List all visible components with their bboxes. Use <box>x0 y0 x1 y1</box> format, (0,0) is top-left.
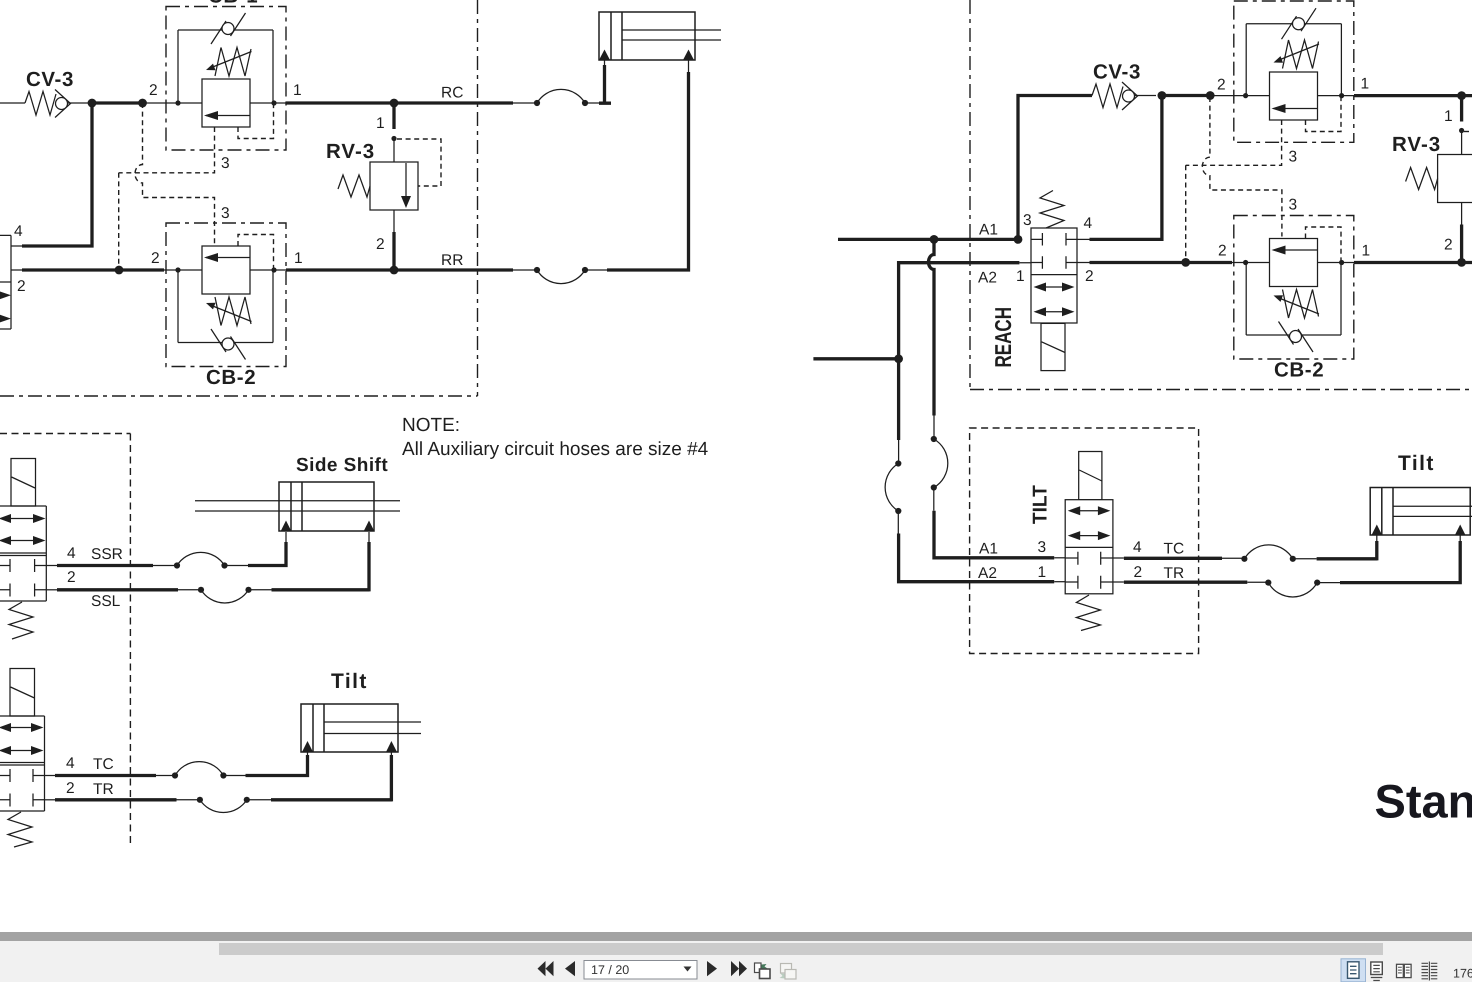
toolbar: previous view icon <box>755 963 771 979</box>
svg-text:REACH: REACH <box>990 307 1016 368</box>
svg-text:1: 1 <box>1016 268 1025 285</box>
svg-text:Tilt: Tilt <box>331 670 368 693</box>
node: top line at RV right <box>1457 91 1466 100</box>
node: RR at RV-3 <box>390 266 399 275</box>
svg-text:SSR: SSR <box>91 546 123 563</box>
svg-text:2: 2 <box>1218 243 1227 260</box>
dashed enclosure for aux valves (left) <box>0 434 130 846</box>
view mode: two page scrolling <box>1422 962 1438 981</box>
side shift valve body <box>0 506 46 639</box>
view mode: two pages <box>1397 964 1412 977</box>
node: CV-3 / port-4 riser junction <box>1158 91 1167 100</box>
tilt valve body (left) <box>0 716 45 847</box>
svg-text:TC: TC <box>1164 541 1185 558</box>
svg-text:2: 2 <box>151 250 160 267</box>
node: RC / pilot A junction <box>138 99 147 108</box>
hose break RR <box>513 267 607 284</box>
svg-text:3: 3 <box>1038 539 1047 556</box>
bottom divider bar <box>0 932 1472 941</box>
tilt valve body (right) <box>978 485 1142 630</box>
wire TR (left) <box>45 741 398 812</box>
svg-text:3: 3 <box>1289 197 1298 214</box>
node: A1 to CV-3 riser junction <box>1014 235 1023 244</box>
wire riser to CV-3 <box>1018 96 1092 242</box>
left control valve (cut off at edge) <box>0 223 26 329</box>
svg-text:2: 2 <box>1134 564 1143 581</box>
svg-text:All Auxiliary circuit hoses ar: All Auxiliary circuit hoses are size #4 <box>402 439 709 460</box>
svg-text:A2: A2 <box>978 565 997 582</box>
wire A2 through REACH <box>1019 262 1089 264</box>
counterbalance valve CB-1 (right) <box>1217 1 1369 142</box>
reach cylinder (top, left half) <box>599 12 721 60</box>
toolbar: last page button <box>731 961 747 976</box>
wire A2 into tilt valve <box>1054 581 1065 583</box>
pilot line B right (CB-1 port 3 to RR) <box>1186 120 1297 258</box>
wire RR to edge (right) <box>1354 261 1472 264</box>
node: pilot B junction (right RR) <box>1181 258 1190 267</box>
svg-text:CB-1: CB-1 <box>208 0 258 8</box>
svg-text:3: 3 <box>1023 212 1032 229</box>
svg-text:1: 1 <box>1362 243 1371 260</box>
svg-text:RV-3: RV-3 <box>326 140 375 163</box>
wire A1 feed (right half) <box>838 238 1019 241</box>
svg-text:Side Shift: Side Shift <box>296 455 388 476</box>
svg-text:2: 2 <box>149 82 158 99</box>
enclosure box left (dash-dot) <box>0 0 478 396</box>
side shift cylinder (double rod) <box>195 482 400 531</box>
scrollbar thumb <box>219 943 1383 955</box>
svg-text:2: 2 <box>1085 268 1094 285</box>
relief valve RV-3 (right, cut at edge) <box>1392 96 1472 263</box>
wire A1 into tilt valve <box>1054 557 1065 559</box>
node: RR at RV right <box>1457 258 1466 267</box>
svg-text:4: 4 <box>14 223 23 240</box>
svg-text:RR: RR <box>441 252 463 269</box>
svg-text:1: 1 <box>1444 108 1453 125</box>
svg-text:2: 2 <box>17 278 26 295</box>
wire RR to cylinder right port <box>607 50 694 272</box>
wire port 4 of REACH to riser <box>1077 96 1162 242</box>
wire A1 riser to tilt A1 (with hop over A2) <box>929 241 1055 558</box>
wire into CB-1 right <box>1210 95 1354 97</box>
svg-text:TR: TR <box>1164 565 1185 582</box>
wire TC (left) <box>45 741 314 779</box>
counterbalance valve CB-1 <box>149 0 302 150</box>
svg-text:TILT: TILT <box>1030 485 1052 524</box>
svg-text:1: 1 <box>1361 76 1370 93</box>
svg-text:1: 1 <box>294 250 303 267</box>
svg-text:3: 3 <box>221 155 230 172</box>
view mode: single page (active) <box>1341 959 1366 982</box>
pilot line A right (top line to CB-2 port 3) <box>1202 97 1297 237</box>
wire SSR <box>46 521 291 569</box>
svg-text:2: 2 <box>376 236 385 253</box>
svg-text:2: 2 <box>66 780 75 797</box>
tilt cylinder (left) <box>301 704 421 752</box>
wire port 4 (left valve to vertical riser) <box>11 245 22 247</box>
wire into CB-2 right <box>1232 262 1354 264</box>
wire RC riser to cylinder <box>599 50 611 105</box>
wire A2 to CB-2 right <box>1090 261 1233 264</box>
svg-text:4: 4 <box>66 755 75 772</box>
NOTE text <box>402 415 709 460</box>
wire TR (right) <box>1113 525 1466 597</box>
svg-text:CB-2: CB-2 <box>1274 359 1324 382</box>
wire RC thick segment to pilot node <box>92 101 143 104</box>
svg-text:TR: TR <box>93 781 114 798</box>
wire main top to edge (right) <box>1354 94 1472 97</box>
node: RC at RV-3 <box>390 99 399 108</box>
wire CB-2 port1 to RV node (RR) <box>286 268 513 271</box>
wire RC feed from left edge <box>0 102 25 104</box>
node: RR / pilot B junction <box>115 266 124 275</box>
toolbar: next view icon (disabled) <box>780 964 797 980</box>
solenoid (side shift valve) <box>11 459 36 507</box>
wire A2 feed corner and riser to tilt A2 <box>885 263 1054 582</box>
svg-text:A1: A1 <box>979 541 998 558</box>
svg-text:SSL: SSL <box>91 593 121 610</box>
reach valve <box>978 191 1094 371</box>
svg-text:CV-3: CV-3 <box>1093 61 1141 84</box>
svg-text:Tilt: Tilt <box>1398 452 1435 475</box>
svg-text:4: 4 <box>67 545 76 562</box>
enclosure box right (dash-dot) <box>970 0 1472 390</box>
wire lower feed (right half) <box>813 357 898 360</box>
svg-text:Stan: Stan <box>1375 775 1472 828</box>
svg-text:4: 4 <box>1084 215 1093 232</box>
pilot line A (RC to CB-2 port 3) <box>135 103 230 244</box>
svg-text:17 / 20: 17 / 20 <box>591 963 629 977</box>
tilt cylinder (right) <box>1370 488 1472 536</box>
check valve CV-3 (right) <box>1092 61 1156 111</box>
svg-text:NOTE:: NOTE: <box>402 415 460 436</box>
svg-text:4: 4 <box>1133 539 1142 556</box>
svg-text:CV-3: CV-3 <box>26 68 74 91</box>
svg-text:2: 2 <box>1444 237 1453 254</box>
node: pilot A junction (right) <box>1206 91 1215 100</box>
svg-text:A1: A1 <box>979 222 998 239</box>
svg-text:1: 1 <box>293 82 302 99</box>
svg-text:A2: A2 <box>978 270 997 287</box>
solenoid (tilt valve right) <box>1079 452 1102 500</box>
svg-text:176: 176 <box>1453 967 1472 981</box>
wire SSL <box>46 521 374 611</box>
svg-text:1: 1 <box>1038 564 1047 581</box>
toolbar: first page button <box>538 961 554 976</box>
pilot line B (CB-1 port 3 to RR) <box>119 127 230 266</box>
svg-text:RV-3: RV-3 <box>1392 133 1441 156</box>
svg-text:RC: RC <box>441 85 463 102</box>
toolbar: next page button <box>707 961 717 976</box>
hose break RC <box>513 89 605 106</box>
wire TC (right) <box>1113 525 1382 562</box>
dashed enclosure TILT (right) <box>970 428 1199 654</box>
check valve CV-3 (left) <box>25 68 88 118</box>
svg-text:2: 2 <box>1217 77 1226 94</box>
wire CB-1 port1 to RV node (RC) <box>286 101 513 104</box>
counterbalance valve CB-2 <box>151 223 303 389</box>
node: A1 junction <box>930 235 939 244</box>
node: RC / port-4 junction <box>88 99 97 108</box>
relief valve RV-3 (left) <box>326 103 441 270</box>
wire thick to pilot node (right) <box>1162 94 1210 97</box>
svg-text:1: 1 <box>376 115 385 132</box>
wire into CB-1 port 2 <box>143 102 286 104</box>
node: feed junction on A2 riser <box>894 354 903 363</box>
toolbar: previous page button <box>565 961 575 976</box>
svg-text:3: 3 <box>221 205 230 222</box>
solenoid (tilt valve left) <box>10 669 35 717</box>
svg-text:2: 2 <box>67 569 76 586</box>
svg-text:3: 3 <box>1289 149 1298 166</box>
svg-text:CB-2: CB-2 <box>206 366 256 389</box>
wire RR from left valve <box>11 269 22 271</box>
toolbar: page number box 17 / 20 <box>584 961 697 980</box>
wire RR into CB-2 <box>164 269 286 271</box>
svg-text:TC: TC <box>93 756 114 773</box>
status bar background <box>0 941 1472 982</box>
view mode: continuous <box>1371 962 1383 981</box>
counterbalance valve CB-2 (right) <box>1218 216 1370 382</box>
